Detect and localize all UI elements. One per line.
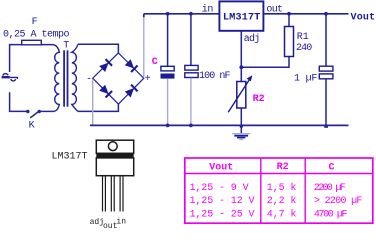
svg-text:adj: adj xyxy=(244,33,260,45)
svg-text:0,25 A tempo: 0,25 A tempo xyxy=(3,29,70,40)
svg-text:C: C xyxy=(152,57,158,68)
svg-text:R2: R2 xyxy=(277,162,289,173)
svg-text:C: C xyxy=(329,162,335,173)
svg-text:adj: adj xyxy=(90,218,104,227)
svg-text:out: out xyxy=(266,4,282,15)
svg-text:R2: R2 xyxy=(253,94,265,105)
svg-text:2200 µF: 2200 µF xyxy=(314,183,346,194)
svg-text:4700 µF: 4700 µF xyxy=(314,209,348,220)
svg-text:in: in xyxy=(116,217,126,226)
svg-text:> 2200 µF: > 2200 µF xyxy=(314,196,362,207)
svg-text:K: K xyxy=(29,121,35,132)
svg-text:240: 240 xyxy=(296,43,312,54)
svg-text:1,25 - 9 V: 1,25 - 9 V xyxy=(190,183,249,194)
svg-text:+: + xyxy=(145,74,151,85)
svg-text:1,5 k: 1,5 k xyxy=(267,182,297,194)
svg-text:out: out xyxy=(103,222,117,229)
svg-text:1 µF: 1 µF xyxy=(294,74,317,85)
svg-text:T: T xyxy=(63,40,69,51)
svg-text:1,25 - 25 V: 1,25 - 25 V xyxy=(190,209,255,220)
svg-text:Vout: Vout xyxy=(209,162,233,173)
svg-text:F: F xyxy=(32,17,38,28)
svg-text:4,7 k: 4,7 k xyxy=(267,208,297,220)
svg-text:LM317T: LM317T xyxy=(223,11,260,23)
svg-text:in: in xyxy=(202,4,214,16)
svg-text:2,2 k: 2,2 k xyxy=(267,195,297,207)
svg-text:LM317T: LM317T xyxy=(52,152,88,163)
svg-text:-: - xyxy=(86,74,92,85)
svg-text:100 nF: 100 nF xyxy=(199,71,231,82)
svg-text:1,25 - 12 V: 1,25 - 12 V xyxy=(190,196,255,207)
svg-text:Vout: Vout xyxy=(351,13,376,24)
svg-text:R1: R1 xyxy=(297,32,309,43)
